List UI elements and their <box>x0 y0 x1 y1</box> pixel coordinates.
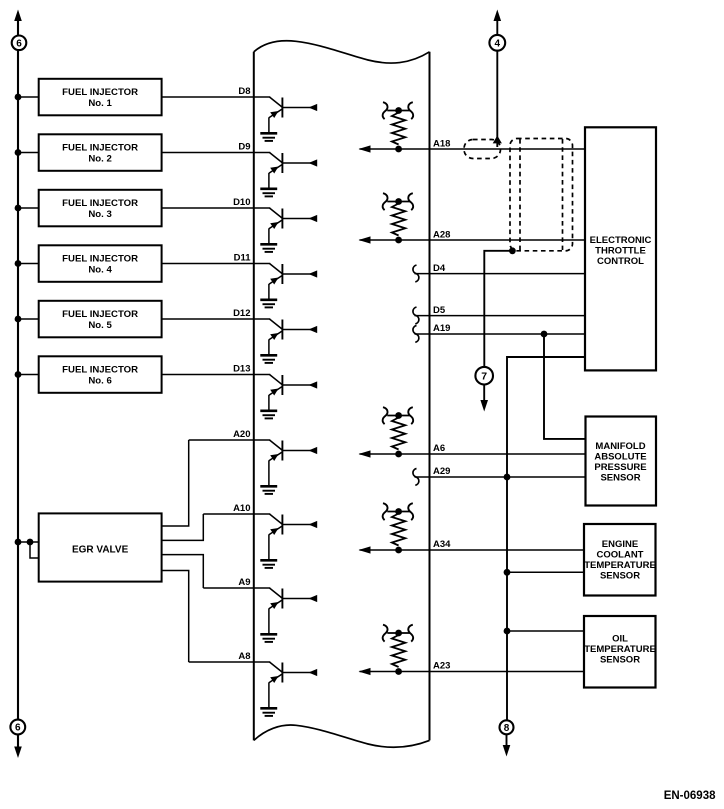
label FUEL INJECTOR No.1 <box>62 87 138 109</box>
label FUEL INJECTOR No.3 <box>62 198 138 220</box>
fuel injector box No.4 <box>39 245 162 281</box>
svg-text:THROTTLE: THROTTLE <box>595 246 646 257</box>
arrow (circle 8, down) <box>503 745 511 757</box>
svg-text:FUEL INJECTOR: FUEL INJECTOR <box>62 365 138 376</box>
junction dot (oil sensor branch) <box>504 628 511 635</box>
junction dot (bus to injector 5) <box>15 316 22 323</box>
svg-text:TEMPERATURE: TEMPERATURE <box>584 560 656 571</box>
transistor Q5 (D12) <box>269 319 317 355</box>
svg-text:COOLANT: COOLANT <box>597 550 644 561</box>
wire-break mark at A19 <box>413 326 419 343</box>
wire (bus to EGR valve) <box>18 541 39 543</box>
wire (left bus upper segment) <box>17 20 19 36</box>
svg-text:PRESSURE: PRESSURE <box>594 462 646 473</box>
wire (bus to fuel injector 1) <box>18 96 39 98</box>
svg-text:No. 6: No. 6 <box>88 375 111 386</box>
junction dot (ECT sensor branch) <box>504 569 511 576</box>
svg-text:D9: D9 <box>238 142 250 153</box>
svg-text:No. 1: No. 1 <box>88 98 112 109</box>
arrow (A23 continues left) <box>359 668 371 675</box>
ground <box>260 411 277 419</box>
svg-text:FUEL INJECTOR: FUEL INJECTOR <box>62 143 138 154</box>
svg-text:EGR VALVE: EGR VALVE <box>72 544 129 555</box>
wire D5 <box>415 315 587 317</box>
wire (ETC bottom pin down to circle 8) <box>507 357 586 720</box>
EGR valve box <box>39 513 162 581</box>
label OIL TEMPERATURE SENSOR <box>584 634 656 666</box>
wire (injector 6 to pin D13) <box>162 374 271 376</box>
junction dot (A29 meets ETC ground wire) <box>504 474 511 481</box>
svg-text:4: 4 <box>495 38 501 49</box>
svg-text:7: 7 <box>481 370 487 382</box>
wire (bus to fuel injector 3) <box>18 207 39 209</box>
svg-text:SENSOR: SENSOR <box>600 571 640 582</box>
transistor Q4 (D11) <box>269 264 317 300</box>
junction dot (bus to injector 1) <box>15 94 22 101</box>
junction dot (bus to injector 4) <box>15 260 22 267</box>
svg-text:FUEL INJECTOR: FUEL INJECTOR <box>62 87 138 98</box>
wire (EGR pin4 to A8) <box>162 571 189 663</box>
svg-text:6: 6 <box>15 723 21 734</box>
svg-text:D13: D13 <box>233 364 250 375</box>
junction dot (shield drain) <box>509 247 516 254</box>
wire (riser from A18 to circle 4) <box>496 50 498 147</box>
ground <box>260 708 277 716</box>
wire (bus to fuel injector 4) <box>18 263 39 265</box>
shield (inner dashed line 2) <box>562 139 564 250</box>
manifold absolute pressure sensor box <box>586 417 657 506</box>
arrow (A18 continues left) <box>359 145 371 152</box>
shield (small dashed oval around A18) <box>464 140 501 159</box>
wire A6 <box>360 453 587 455</box>
ground <box>260 133 277 141</box>
transistor Q9 (A9) <box>269 588 317 634</box>
wire (riser above circle 4) <box>496 20 498 35</box>
junction marker (riser meets A18) <box>493 136 502 144</box>
arrow (A28 continues left) <box>359 236 371 243</box>
connector circle 4 <box>489 35 505 51</box>
wire (bus to fuel injector 6) <box>18 374 39 376</box>
svg-text:A8: A8 <box>238 651 250 662</box>
wire (injector 4 to pin D11) <box>162 263 271 265</box>
ground <box>260 486 277 494</box>
wire (A19 branch to MAP sensor) <box>544 334 586 439</box>
wire A19 <box>415 333 587 335</box>
wire (A20 to transistor) <box>189 439 271 441</box>
svg-text:A20: A20 <box>233 429 250 440</box>
svg-text:A18: A18 <box>433 139 450 150</box>
svg-text:A29: A29 <box>433 466 450 477</box>
arrow (circle 7, down) <box>480 400 488 412</box>
label MANIFOLD ABSOLUTE PRESSURE SENSOR <box>594 441 646 484</box>
svg-text:D10: D10 <box>233 197 250 208</box>
label FUEL INJECTOR No.6 <box>62 365 138 387</box>
wire (branch to oil sensor) <box>507 630 584 632</box>
shield (inner dashed line 1) <box>519 139 521 250</box>
wire A29 <box>415 476 587 478</box>
svg-text:D4: D4 <box>433 263 446 274</box>
wire (injector 2 to pin D9) <box>162 152 271 154</box>
svg-text:ABSOLUTE: ABSOLUTE <box>594 452 646 463</box>
transistor Q6 (D13) <box>269 375 317 411</box>
electronic throttle control box <box>585 127 656 370</box>
arrow (A6 continues left) <box>359 450 371 457</box>
wire (injector 3 to pin D10) <box>162 207 271 209</box>
ground <box>260 300 277 308</box>
ground <box>260 244 277 252</box>
svg-text:A28: A28 <box>433 230 450 241</box>
wire (branch to ECT sensor) <box>507 571 584 573</box>
wire (below circle 8) <box>506 734 508 746</box>
arrow (top of left bus, up) <box>14 10 22 22</box>
svg-text:D8: D8 <box>238 86 250 97</box>
ground <box>260 634 277 642</box>
junction dot (bus to injector 2) <box>15 149 22 156</box>
ECM outline torn top edge <box>254 41 430 63</box>
wire A23 <box>360 671 585 673</box>
transistor Q7 (A20) <box>269 440 317 486</box>
transistor Q3 (D10) <box>269 208 317 244</box>
wire (EGR pin3 to A9) <box>162 555 204 588</box>
transistor Q1 (D8) <box>269 97 317 133</box>
svg-text:No. 3: No. 3 <box>88 209 111 220</box>
resistor (pull-up at A23) <box>383 625 414 675</box>
wire-break mark at D5 <box>413 307 419 324</box>
wire (below circle 7) <box>483 385 485 402</box>
wire D4 <box>415 273 587 275</box>
wire (left bus lower segment) <box>17 734 19 748</box>
wire (A9 to transistor) <box>203 587 270 589</box>
wire (left bus main segment) <box>17 50 19 719</box>
svg-text:MANIFOLD: MANIFOLD <box>595 441 645 452</box>
transistor Q10 (A8) <box>269 662 317 708</box>
svg-text:FUEL INJECTOR: FUEL INJECTOR <box>62 309 138 320</box>
wire-break mark at D4 <box>413 265 419 282</box>
oil temperature sensor box <box>584 616 656 688</box>
svg-text:D5: D5 <box>433 305 446 316</box>
label FUEL INJECTOR No.5 <box>62 309 138 331</box>
svg-text:6: 6 <box>16 38 22 49</box>
svg-text:TEMPERATURE: TEMPERATURE <box>584 644 656 655</box>
svg-text:A34: A34 <box>433 539 451 550</box>
svg-text:A23: A23 <box>433 661 450 672</box>
ECM outline right edge <box>429 52 431 741</box>
wire (A8 to transistor) <box>189 661 271 663</box>
wire (shield drain to circle 7) <box>484 251 512 367</box>
svg-text:A10: A10 <box>233 503 250 514</box>
svg-text:No. 4: No. 4 <box>88 264 112 275</box>
ground <box>260 560 277 568</box>
wire-break mark at A29 <box>413 469 419 486</box>
ground <box>260 189 277 197</box>
wire (EGR stub loop) <box>30 542 39 558</box>
resistor (pull-up at A6) <box>383 407 414 457</box>
fuel injector box No.1 <box>39 79 162 116</box>
svg-text:A9: A9 <box>238 577 250 588</box>
svg-text:FUEL INJECTOR: FUEL INJECTOR <box>62 198 138 209</box>
wire A18 <box>360 148 587 150</box>
svg-text:CONTROL: CONTROL <box>597 256 644 267</box>
label ELECTRONIC THROTTLE CONTROL <box>590 235 652 267</box>
svg-text:D11: D11 <box>234 253 252 264</box>
shield (outer dashed tube) <box>510 139 573 251</box>
connector circle 6 (top) <box>12 36 27 51</box>
wire (EGR pin2 to A10) <box>162 514 204 540</box>
ECM outline left edge <box>253 52 255 741</box>
transistor Q2 (D9) <box>269 153 317 189</box>
wire A28 <box>360 239 587 241</box>
svg-text:SENSOR: SENSOR <box>600 655 640 666</box>
svg-text:OIL: OIL <box>612 634 628 645</box>
fuel injector box No.5 <box>39 301 162 338</box>
fuel injector box No.3 <box>39 190 162 227</box>
connector circle 7 <box>475 367 493 385</box>
junction dot (A19 branch) <box>541 331 548 338</box>
svg-text:A6: A6 <box>433 443 445 454</box>
junction dot (bus to injector 6) <box>15 371 22 378</box>
svg-text:No. 2: No. 2 <box>88 153 111 164</box>
fuel injector box No.6 <box>39 356 162 393</box>
connector circle 6 (bottom) <box>10 720 25 735</box>
resistor (pull-up at A28) <box>383 193 414 243</box>
junction dot (bus to EGR valve) <box>15 539 22 546</box>
junction dot (bus to injector 3) <box>15 205 22 212</box>
resistor (pull-up at A34) <box>383 503 414 553</box>
svg-text:No. 5: No. 5 <box>88 320 112 331</box>
svg-text:FUEL INJECTOR: FUEL INJECTOR <box>62 254 138 265</box>
wire (bus to fuel injector 5) <box>18 318 39 320</box>
svg-text:D12: D12 <box>233 308 250 319</box>
wire (injector 1 to pin D8) <box>162 96 271 98</box>
ground <box>260 355 277 363</box>
wire (injector 5 to pin D12) <box>162 318 271 320</box>
resistor (pull-up at A18) <box>383 102 414 152</box>
svg-text:ENGINE: ENGINE <box>602 539 638 550</box>
svg-text:SENSOR: SENSOR <box>600 473 640 484</box>
junction dot (EGR stub) <box>27 539 34 546</box>
wire (EGR pin1 to A20) <box>162 440 189 526</box>
label FUEL INJECTOR No.2 <box>62 143 138 165</box>
transistor Q8 (A10) <box>269 514 317 560</box>
label FUEL INJECTOR No.4 <box>62 254 138 276</box>
arrow (riser to 4, up) <box>494 10 502 22</box>
ECM outline torn bottom edge <box>254 725 430 747</box>
wire (bus to fuel injector 2) <box>18 152 39 154</box>
fuel injector box No.2 <box>39 134 162 171</box>
engine coolant temperature sensor box <box>584 524 656 596</box>
wire (A10 to transistor) <box>203 513 270 515</box>
connector circle 8 <box>500 720 514 734</box>
arrow (A34 continues left) <box>359 546 371 553</box>
svg-text:ELECTRONIC: ELECTRONIC <box>590 235 652 246</box>
svg-text:8: 8 <box>504 723 510 734</box>
svg-text:A19: A19 <box>433 323 450 334</box>
arrow (bottom of left bus, down) <box>14 747 22 759</box>
wire A34 <box>360 549 585 551</box>
label ENGINE COOLANT TEMPERATURE SENSOR <box>584 539 656 582</box>
svg-text:EN-06938: EN-06938 <box>664 790 716 802</box>
